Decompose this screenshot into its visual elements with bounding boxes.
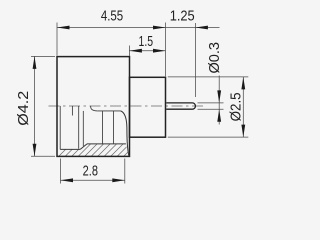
dimension line dia0.3	[218, 76, 220, 125]
svg-text:2.8: 2.8	[83, 163, 98, 179]
extension line body right for 1.5	[128, 46, 130, 57]
flange outline (dia 2.5 boss)	[130, 77, 166, 137]
connector body outline (dia 4.2 barrel)	[57, 57, 130, 157]
arrowhead 4.55 right / 1.25 left	[153, 26, 166, 30]
arrowhead dia4.2 top	[33, 56, 37, 69]
insulator slot edge left	[102, 111, 104, 144]
extension line pin bottom for dia0.3	[198, 108, 224, 110]
cavity floor	[60, 148, 80, 150]
bore line	[97, 110, 120, 112]
svg-text:Ø2.5: Ø2.5	[228, 92, 244, 121]
extension line pin top for dia0.3	[198, 102, 224, 104]
centerline (axis of connector)	[49, 105, 205, 107]
extension line flange top for dia2.5	[168, 76, 249, 78]
extension line body bottom for dia4.2	[31, 155, 55, 157]
arrowhead 2.8 left	[61, 178, 74, 182]
arrowhead 1.5 left	[129, 49, 142, 53]
dimension line dia4.2	[34, 56, 36, 156]
cavity chamfer	[80, 144, 87, 150]
center pin (dia 0.3)	[166, 103, 195, 109]
dimension line 4.55 and 1.25	[57, 27, 220, 29]
extension line body top for dia4.2	[31, 55, 55, 57]
section hatching of body bottom wall	[50, 135, 152, 165]
bell-mouth arc	[121, 111, 129, 156]
extension line cavity right for 2.8	[124, 159, 126, 184]
dimension line 1.5	[129, 50, 165, 52]
cavity ledge	[87, 143, 126, 145]
sleeve left edge	[78, 106, 80, 149]
bore entry fillet	[91, 106, 98, 111]
arrowhead dia0.3 top	[217, 90, 221, 103]
inner wall edge	[59, 106, 61, 149]
arrowhead 2.8 right	[112, 178, 125, 182]
svg-text:Ø4.2: Ø4.2	[16, 91, 32, 126]
sleeve right edge	[82, 111, 84, 146]
arrowhead dia2.5 bottom	[241, 125, 245, 138]
arrowhead dia4.2 bottom	[33, 144, 37, 157]
svg-text:1.25: 1.25	[170, 8, 195, 24]
extension line body left for 4.55	[56, 23, 58, 56]
extension line cavity left for 2.8	[60, 159, 62, 184]
extension line flange right for 4.55/1.5/1.25	[165, 23, 167, 77]
extension line flange bottom for dia2.5	[168, 136, 249, 138]
svg-text:4.55: 4.55	[101, 8, 123, 24]
arrowhead dia2.5 top	[241, 77, 245, 90]
arrowhead dia0.3 bottom	[217, 109, 221, 122]
dimension line 2.8	[61, 179, 125, 181]
arrowhead 4.55 left	[57, 26, 70, 30]
insulator slot edge right	[113, 111, 115, 144]
contact stub edge	[71, 106, 73, 116]
extension line pin tip for 1.25	[194, 23, 196, 97]
arrowhead 1.25 right	[195, 26, 208, 30]
dimension line dia2.5	[242, 77, 244, 137]
svg-text:Ø0.3: Ø0.3	[207, 42, 223, 74]
arrowhead 1.5 right	[153, 49, 166, 53]
svg-text:1.5: 1.5	[139, 34, 154, 50]
